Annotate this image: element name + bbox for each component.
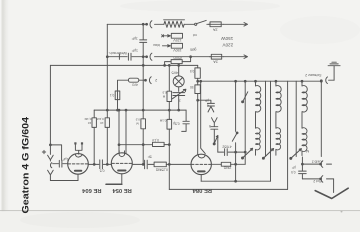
tube V3 grid — [191, 163, 211, 165]
resistor R-lamp 650 — [171, 60, 182, 64]
coil L2b lower — [276, 112, 281, 155]
bottom rule line — [0, 210, 360, 212]
svg-text:0,1: 0,1 — [110, 93, 115, 97]
svg-text:4V5: 4V5 — [172, 70, 179, 74]
col3 right vertical — [320, 80, 322, 156]
vertical x143 middle — [142, 57, 144, 165]
speaker jack fork 2 — [48, 170, 54, 180]
svg-text:10: 10 — [100, 121, 104, 125]
tube V1 anode cup — [76, 154, 82, 157]
svg-text:RE 604: RE 604 — [81, 187, 101, 193]
node — [190, 56, 192, 58]
svg-text:0,5μ: 0,5μ — [173, 122, 180, 126]
capacitor C1 1uF on vertical — [140, 24, 147, 56]
node W2/C1 — [142, 56, 144, 58]
tube V3 cathode lead — [200, 175, 202, 182]
coil L1b lower — [256, 112, 261, 155]
svg-text:650Ω: 650Ω — [173, 56, 182, 60]
resistor heater R-heiz with tap bar — [164, 20, 185, 28]
antenna symbol — [328, 62, 340, 80]
svg-text:2A: 2A — [213, 60, 218, 64]
plate wire + resistor 2M — [211, 163, 221, 165]
col2 right vertical — [287, 81, 289, 189]
svg-text:0,25MΩ: 0,25MΩ — [155, 167, 167, 171]
tube V1 cathode lead — [77, 174, 79, 180]
svg-text:Wellensch.: Wellensch. — [108, 51, 127, 55]
resistor R5 0,5M — [167, 91, 172, 101]
paper speck — [341, 211, 343, 213]
switch arm A — [242, 157, 244, 159]
coil L2a upper — [276, 81, 281, 112]
wire vertical x50 — [49, 65, 51, 144]
lamp LP1 4V — [178, 65, 180, 76]
svg-text:10: 10 — [88, 121, 92, 125]
tube V2 RE054 envelope — [111, 153, 132, 174]
svg-text:0,1M: 0,1M — [97, 117, 104, 121]
svg-text:47052: 47052 — [222, 145, 231, 149]
capacitor C5 5uF — [198, 100, 215, 112]
vertical x169 long — [168, 65, 170, 189]
svg-text:50: 50 — [190, 85, 194, 89]
pickup stub with resistor — [118, 80, 129, 110]
coil bus W5 — [198, 80, 322, 82]
speaker plus — [42, 150, 45, 153]
bus W4 horizontal — [94, 109, 186, 111]
fuse F1 2A — [210, 22, 221, 27]
output to jack gelb — [302, 157, 320, 164]
feed to tube3 anode top — [201, 81, 206, 153]
svg-text:0,1M: 0,1M — [159, 119, 166, 123]
tube V1 grid — [68, 163, 88, 165]
coil L1a upper — [256, 81, 261, 112]
tube V1 top terminals — [75, 145, 82, 155]
capacitor C-spk 1uF — [53, 160, 68, 167]
resistor tap 125V — [171, 33, 182, 38]
resistor R4 0,1M on x169 — [167, 119, 172, 129]
wire arm to cap C7 — [217, 138, 219, 153]
tube V3 RE084 envelope — [191, 154, 211, 174]
resistor R8 0,1 on pickup line — [115, 91, 120, 100]
tube V3 anode cup — [198, 155, 204, 158]
svg-text:Geatron 4 G fG/604: Geatron 4 G fG/604 — [21, 116, 32, 213]
svg-text:150W: 150W — [221, 36, 234, 41]
wire with end arrow — [223, 23, 247, 27]
capacitor C2 between V1 V2 — [88, 160, 111, 169]
svg-text:150V: 150V — [173, 48, 182, 52]
svg-text:0,5: 0,5 — [100, 168, 105, 172]
resistor R6 0,5 — [197, 65, 199, 68]
earth symbol chevron — [315, 188, 348, 198]
svg-text:125V: 125V — [173, 38, 182, 42]
fuse F2 2A — [211, 54, 221, 59]
switch arm C — [290, 157, 292, 159]
variable capacitor C-var — [172, 89, 186, 99]
node coupling — [142, 164, 144, 166]
svg-text:2A: 2A — [212, 27, 217, 31]
connector plug P2 — [146, 56, 148, 58]
svg-text:1μF: 1μF — [131, 37, 138, 41]
antenna jack schwarz — [326, 77, 334, 84]
wire top left horizontal — [107, 23, 145, 25]
svg-text:1μF: 1μF — [131, 49, 138, 53]
svg-text:rot: rot — [193, 33, 197, 37]
svg-text:RE 084: RE 084 — [192, 187, 212, 193]
svg-text:gelb: gelb — [190, 48, 197, 52]
col1 right vertical — [265, 81, 267, 156]
resistor R01 row — [119, 144, 153, 146]
resistor R3 0,5M on x143 — [141, 119, 146, 129]
wire mains L1 — [155, 23, 164, 25]
wire to tube cathode — [50, 180, 78, 182]
svg-text:4V3: 4V3 — [132, 82, 138, 86]
bottom margin paper — [0, 211, 360, 232]
capacitor C6 25 — [182, 110, 190, 131]
speaker jack receptacle — [50, 163, 51, 168]
svg-text:5F: 5F — [148, 155, 152, 159]
trimmer capacitor with fork — [211, 118, 218, 144]
svg-text:Gelb 2: Gelb 2 — [312, 160, 322, 164]
tube V2 filament bar — [118, 170, 125, 172]
col2 left vertical — [270, 81, 272, 181]
svg-text:0,5: 0,5 — [291, 170, 296, 174]
svg-text:2: 2 — [155, 78, 157, 82]
svg-text:220V: 220V — [222, 43, 234, 48]
resistor tap 150V — [171, 43, 182, 48]
vertical x243 col1 left — [244, 81, 246, 164]
wire vertical left — [106, 24, 108, 56]
svg-text:Schwarz 2: Schwarz 2 — [305, 73, 321, 77]
node — [164, 65, 166, 67]
earth lead — [333, 179, 335, 193]
capacitor C8 0,5uF — [299, 164, 307, 179]
capacitor C-block 1uF — [128, 53, 145, 60]
coil L3a upper — [302, 81, 307, 112]
tube V2 cathode lead — [121, 174, 123, 185]
connector plug P1 — [146, 23, 148, 25]
svg-text:Rot 2: Rot 2 — [313, 179, 321, 183]
speaker jack fork 1 — [48, 145, 54, 161]
svg-text:M: M — [306, 149, 309, 153]
node W1/C1 — [142, 23, 144, 25]
svg-text:0,5: 0,5 — [190, 69, 195, 73]
coupling cap C3 + resistor 0,25M — [132, 160, 154, 169]
svg-text:2MΩ: 2MΩ — [223, 166, 231, 170]
tube V1 filament bar — [75, 170, 81, 172]
left page edge shadow — [0, 0, 9, 232]
branch to coupling cap — [50, 145, 61, 160]
vertical x236 with switch arm — [232, 81, 237, 181]
vertical leads to tube2 top — [119, 110, 126, 154]
detector switch arm — [213, 143, 215, 145]
col3 left vertical — [295, 81, 297, 156]
wire mains L2 right — [155, 56, 212, 58]
svg-text:μF: μF — [205, 99, 209, 103]
tube V2 heater wire — [106, 183, 122, 185]
bus1 cathode — [201, 180, 270, 182]
resistor Rg1 0,1M — [93, 110, 95, 164]
svg-text:μF: μF — [292, 165, 296, 169]
wire with end arrow — [223, 55, 247, 59]
svg-text:5: 5 — [209, 124, 211, 128]
wire — [184, 23, 194, 25]
svg-text:0,1V: 0,1V — [151, 138, 159, 142]
resistor Rg2 0,1M — [106, 57, 108, 165]
svg-text:0,5: 0,5 — [162, 90, 167, 94]
wire mains L2 left — [107, 54, 127, 59]
coil L3b lower — [302, 112, 307, 155]
wire W3 main horizontal — [50, 64, 197, 66]
tube V2 grid — [112, 162, 132, 164]
svg-text:5: 5 — [207, 103, 209, 107]
tube V1 RE604 envelope — [68, 154, 89, 175]
node lamp/bus — [178, 109, 180, 111]
resistor R7 50 — [197, 78, 199, 85]
switch arm col1 internal — [242, 101, 244, 103]
svg-text:0,5: 0,5 — [135, 117, 140, 121]
svg-text:1μF: 1μF — [62, 157, 68, 161]
capacitor C7 — [218, 149, 245, 156]
svg-text:RE 054: RE 054 — [112, 187, 132, 193]
svg-text:2: 2 — [178, 98, 180, 102]
paper mottling — [20, 212, 140, 228]
switch arm B — [262, 157, 264, 159]
svg-text:blau: blau — [153, 43, 160, 47]
wire to jack rot — [302, 178, 320, 180]
bus2 ground return — [169, 188, 287, 190]
tube V3 filament bar — [198, 170, 205, 172]
tube V2 anode cup — [119, 151, 124, 157]
switch S1 — [195, 23, 197, 25]
svg-text:0,1M: 0,1M — [84, 117, 91, 121]
